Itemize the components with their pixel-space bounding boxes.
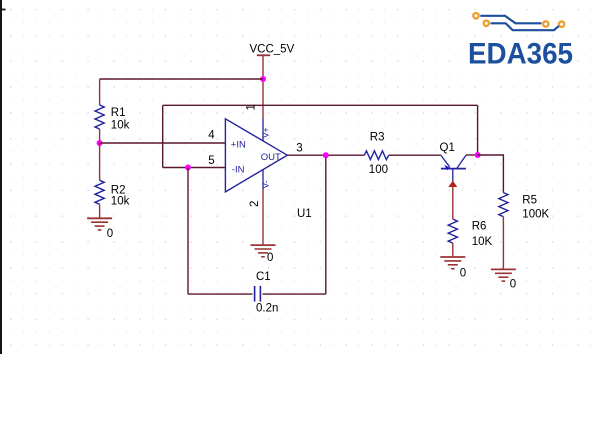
svg-text:R5: R5 [522, 195, 537, 207]
resistor R2 [95, 143, 104, 218]
svg-text:10K: 10K [472, 236, 493, 248]
wire C1 right vertical [325, 155, 327, 294]
junction node R1/R2/+IN [97, 140, 103, 146]
wire feedback right vertical [477, 105, 479, 155]
svg-text:C1: C1 [256, 271, 271, 283]
resistor R1 [95, 79, 104, 143]
svg-text:3: 3 [296, 143, 302, 155]
svg-text:VCC_5V: VCC_5V [250, 44, 295, 56]
op-amp U1 [225, 118, 287, 192]
junction node collector [475, 152, 481, 158]
wire C1 left vertical [187, 168, 189, 295]
ground 0 at R6 [440, 257, 466, 280]
wire Q1 collector to node [466, 154, 478, 156]
resistor R3 [364, 151, 388, 160]
logo EDA365 [468, 13, 573, 70]
svg-text:0: 0 [510, 279, 516, 291]
resistor R5 [499, 193, 508, 270]
svg-text:2: 2 [249, 201, 261, 207]
junction node OUT [323, 152, 329, 158]
wire node to R5 [478, 155, 504, 193]
svg-text:+IN: +IN [231, 140, 246, 151]
svg-text:5: 5 [208, 155, 214, 167]
ground 0 at op-amp [251, 245, 276, 264]
resistor R6 [448, 219, 457, 257]
transistor Q1 [441, 155, 466, 219]
wire op-amp V- to ground [262, 190, 264, 245]
wire C1 bottom right [263, 293, 326, 295]
wire R3 to Q1 base [389, 154, 441, 156]
svg-text:Q1: Q1 [440, 142, 455, 154]
svg-text:100K: 100K [522, 209, 549, 221]
svg-text:0: 0 [107, 228, 113, 240]
svg-text:10k: 10k [111, 196, 130, 208]
ground 0 at R5 [491, 269, 516, 290]
svg-text:100: 100 [369, 164, 388, 176]
svg-text:EDA365: EDA365 [468, 38, 573, 71]
svg-text:4: 4 [208, 129, 215, 141]
wire VCC net vertical to op-amp V+ pin [262, 79, 264, 118]
svg-text:R6: R6 [472, 221, 487, 233]
wire OUT net [287, 154, 364, 156]
wire VCC net horizontal to R1 [100, 78, 263, 80]
svg-text:-IN: -IN [232, 165, 245, 176]
power symbol VCC_5V [250, 44, 295, 80]
svg-text:0.2n: 0.2n [256, 303, 278, 315]
svg-text:OUT: OUT [261, 152, 281, 163]
svg-text:U1: U1 [297, 208, 312, 220]
capacitor C1 [255, 286, 261, 302]
junction node -IN/C1 [185, 165, 191, 171]
wire feedback top horizontal [163, 104, 478, 106]
svg-text:V+: V+ [261, 127, 271, 138]
svg-text:1: 1 [246, 104, 258, 110]
svg-text:V-: V- [261, 180, 271, 188]
svg-text:10k: 10k [111, 120, 130, 132]
ground 0 at R2 [87, 218, 113, 240]
wire -IN net horizontal [163, 167, 226, 169]
svg-text:0: 0 [460, 268, 466, 280]
svg-text:R1: R1 [111, 107, 126, 119]
wire +IN net [100, 142, 226, 144]
junction VCC node [260, 76, 266, 82]
svg-text:0: 0 [267, 252, 273, 264]
svg-text:R3: R3 [370, 132, 385, 144]
wire -IN feedback left vertical [162, 105, 164, 167]
wire C1 bottom left [188, 293, 253, 295]
